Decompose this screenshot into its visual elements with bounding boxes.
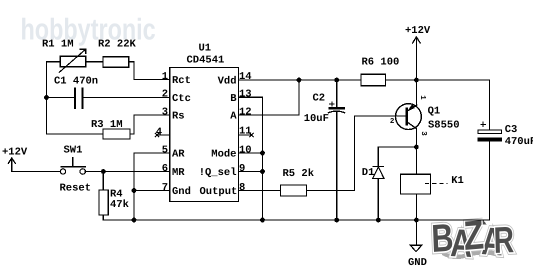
svg-text:B: B xyxy=(431,217,455,261)
svg-text:9: 9 xyxy=(239,163,245,175)
svg-text:7: 7 xyxy=(162,182,168,194)
svg-text:Reset: Reset xyxy=(60,183,92,195)
svg-text:8: 8 xyxy=(239,182,245,194)
svg-text:+12V: +12V xyxy=(405,25,431,37)
svg-text:13: 13 xyxy=(239,89,252,101)
svg-text:Mode: Mode xyxy=(211,149,236,161)
svg-text:K1: K1 xyxy=(451,175,464,187)
svg-text:10: 10 xyxy=(239,144,252,156)
svg-text:SW1: SW1 xyxy=(64,145,83,157)
svg-text:CD4541: CD4541 xyxy=(187,55,225,67)
svg-text:R1 1M: R1 1M xyxy=(42,39,74,51)
svg-text:R3 1M: R3 1M xyxy=(91,119,123,131)
svg-text:AR: AR xyxy=(172,149,185,161)
svg-text:R: R xyxy=(493,219,514,261)
svg-text:Rs: Rs xyxy=(172,111,185,123)
svg-text:A: A xyxy=(230,111,237,123)
svg-text:1: 1 xyxy=(418,95,426,100)
svg-text:C3: C3 xyxy=(505,124,518,136)
svg-text:Vdd: Vdd xyxy=(218,76,237,88)
svg-text:Q1: Q1 xyxy=(428,106,441,118)
svg-text:D1: D1 xyxy=(362,167,375,179)
svg-text:14: 14 xyxy=(239,71,252,83)
svg-text:2: 2 xyxy=(390,117,395,126)
svg-text:Z: Z xyxy=(462,211,485,259)
svg-text:12: 12 xyxy=(239,106,252,118)
svg-text:5: 5 xyxy=(162,144,168,156)
svg-text:Gnd: Gnd xyxy=(172,186,191,198)
svg-text:C2: C2 xyxy=(313,93,326,105)
svg-text:S8550: S8550 xyxy=(428,120,460,132)
svg-text:R2 22K: R2 22K xyxy=(98,39,137,51)
svg-text:10uF: 10uF xyxy=(304,113,329,125)
svg-text:R5 2k: R5 2k xyxy=(283,168,315,180)
svg-text:1: 1 xyxy=(162,71,168,83)
svg-text:Ctc: Ctc xyxy=(172,93,191,105)
svg-text:+12V: +12V xyxy=(2,147,28,159)
svg-text:U1: U1 xyxy=(199,43,212,55)
svg-text:Output: Output xyxy=(199,186,237,198)
svg-text:47k: 47k xyxy=(110,199,129,211)
svg-text:11: 11 xyxy=(239,125,252,137)
svg-text:Rct: Rct xyxy=(172,75,191,87)
svg-text:3: 3 xyxy=(162,106,168,118)
svg-text:B: B xyxy=(230,93,237,105)
svg-text:!Q_sel: !Q_sel xyxy=(199,167,237,179)
svg-text:MR: MR xyxy=(172,167,185,179)
svg-text:6: 6 xyxy=(162,163,168,175)
svg-text:3: 3 xyxy=(419,131,428,136)
svg-text:GND: GND xyxy=(408,257,427,267)
svg-text:2: 2 xyxy=(162,89,168,101)
svg-text:R6 100: R6 100 xyxy=(362,57,400,69)
svg-text:4: 4 xyxy=(156,126,162,138)
svg-text:C1 470n: C1 470n xyxy=(54,76,98,88)
svg-text:470uF: 470uF xyxy=(505,136,533,148)
